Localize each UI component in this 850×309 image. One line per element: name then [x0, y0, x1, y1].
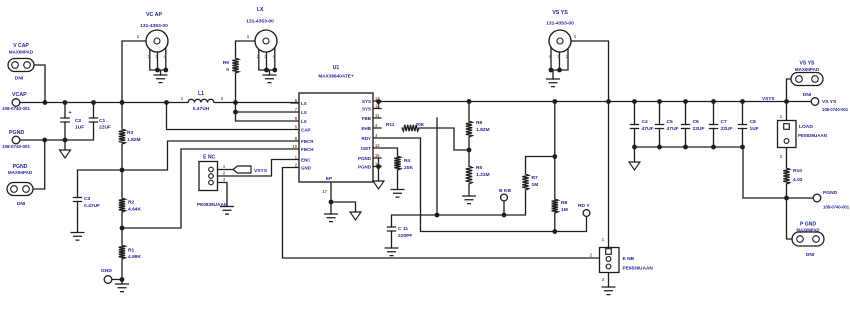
svg-text:PGND: PGND: [358, 164, 372, 169]
svg-text:FBB: FBB: [362, 116, 372, 121]
svg-text:EP: EP: [326, 176, 332, 181]
svg-text:108-0740-001: 108-0740-001: [2, 106, 31, 111]
svg-text:C 11: C 11: [398, 226, 408, 232]
svg-text:LX: LX: [257, 7, 264, 13]
svg-text:0.47UH: 0.47UH: [193, 106, 210, 112]
svg-text:47UF: 47UF: [667, 126, 679, 132]
svg-text:108-0740-001: 108-0740-001: [822, 107, 849, 112]
svg-text:131-4353-00: 131-4353-00: [246, 19, 274, 25]
svg-text:16: 16: [375, 161, 380, 166]
svg-text:+: +: [68, 110, 71, 116]
svg-text:R3: R3: [127, 130, 134, 136]
svg-text:C8: C8: [750, 119, 757, 125]
svg-text:DNI: DNI: [803, 92, 812, 98]
svg-text:FBCH: FBCH: [301, 147, 314, 152]
svg-text:4.99K: 4.99K: [128, 254, 142, 260]
svg-text:20K: 20K: [416, 122, 425, 127]
svg-text:LX: LX: [301, 119, 307, 124]
svg-text:SYS: SYS: [362, 99, 371, 104]
svg-text:0: 0: [226, 67, 229, 73]
svg-text:11: 11: [375, 113, 380, 118]
svg-text:220PF: 220PF: [398, 233, 412, 239]
svg-text:0.47UF: 0.47UF: [84, 203, 100, 209]
svg-text:PE0839UAAN: PE0839UAAN: [197, 202, 228, 207]
svg-text:RD Y: RD Y: [578, 203, 590, 209]
svg-text:1.82M: 1.82M: [476, 127, 490, 133]
svg-text:V CAP: V CAP: [13, 43, 29, 49]
svg-text:R1: R1: [128, 248, 135, 254]
svg-text:DNI: DNI: [806, 252, 815, 258]
svg-text:E NB: E NB: [623, 256, 635, 262]
svg-text:4.02: 4.02: [793, 177, 803, 183]
svg-text:1M: 1M: [532, 182, 539, 188]
svg-text:14: 14: [375, 103, 380, 108]
svg-text:4.64K: 4.64K: [128, 207, 142, 213]
svg-text:PGND: PGND: [358, 156, 372, 161]
svg-text:DNI: DNI: [17, 201, 26, 207]
svg-text:R10: R10: [793, 168, 802, 174]
svg-text:MAXIMPAD: MAXIMPAD: [795, 67, 820, 72]
svg-text:1UF: 1UF: [75, 125, 84, 131]
svg-text:R7: R7: [532, 175, 539, 181]
svg-text:13: 13: [375, 96, 380, 101]
svg-text:ENC: ENC: [301, 157, 311, 162]
svg-text:17: 17: [322, 189, 327, 194]
svg-text:GND: GND: [101, 268, 112, 274]
svg-text:C6: C6: [693, 119, 700, 125]
svg-text:ISET: ISET: [361, 146, 371, 151]
svg-text:108-0740-001: 108-0740-001: [823, 205, 850, 210]
svg-text:C3: C3: [84, 196, 91, 202]
svg-text:PGND: PGND: [9, 130, 24, 136]
svg-text:1M: 1M: [561, 207, 568, 213]
svg-text:22UF: 22UF: [721, 126, 733, 132]
svg-text:E NC: E NC: [203, 155, 215, 161]
svg-text:R9: R9: [223, 60, 230, 66]
svg-text:C4: C4: [642, 119, 649, 125]
svg-text:22UF: 22UF: [693, 126, 705, 132]
svg-text:U1: U1: [333, 65, 340, 71]
svg-text:PGND: PGND: [823, 190, 838, 196]
svg-text:R5: R5: [476, 165, 483, 171]
svg-text:LX: LX: [301, 101, 307, 106]
svg-text:1.21M: 1.21M: [476, 172, 490, 178]
svg-text:VS YS: VS YS: [552, 10, 568, 16]
svg-text:C5: C5: [667, 119, 674, 125]
svg-text:PE0839UAAN: PE0839UAAN: [623, 266, 654, 271]
svg-text:22UF: 22UF: [99, 125, 111, 131]
svg-text:C1: C1: [99, 118, 106, 124]
svg-text:47UF: 47UF: [642, 126, 654, 132]
svg-text:R6: R6: [476, 120, 483, 126]
svg-text:10: 10: [292, 144, 297, 149]
svg-text:MAXIMPAD: MAXIMPAD: [796, 228, 819, 233]
svg-text:VC AP: VC AP: [146, 12, 162, 18]
svg-text:FBCR: FBCR: [301, 139, 314, 144]
svg-text:131-4353-00: 131-4353-00: [546, 21, 574, 27]
svg-text:VSYS: VSYS: [762, 96, 775, 101]
svg-text:LX: LX: [301, 110, 307, 115]
svg-text:LOAD: LOAD: [799, 124, 813, 130]
svg-text:PE0839UAAN: PE0839UAAN: [798, 133, 827, 138]
svg-text:DNI: DNI: [15, 76, 24, 82]
svg-text:VSYS: VSYS: [254, 168, 268, 174]
svg-text:C2: C2: [75, 118, 82, 124]
svg-text:L1: L1: [198, 91, 204, 97]
svg-text:20K: 20K: [404, 165, 413, 171]
svg-text:R2: R2: [128, 200, 135, 206]
svg-text:1.82M: 1.82M: [127, 137, 141, 143]
svg-text:VS YS: VS YS: [822, 99, 837, 105]
svg-text:RDY: RDY: [361, 136, 371, 141]
svg-text:C7: C7: [721, 119, 728, 125]
svg-text:131-4353-00: 131-4353-00: [140, 23, 168, 29]
svg-text:1UF: 1UF: [750, 126, 759, 132]
svg-text:MAXIMPAD: MAXIMPAD: [8, 170, 33, 175]
svg-text:VCAP: VCAP: [12, 92, 27, 98]
svg-text:108-0740-001: 108-0740-001: [2, 144, 31, 149]
svg-text:12: 12: [375, 143, 380, 148]
svg-text:CAP: CAP: [301, 127, 311, 132]
svg-text:EHB: EHB: [361, 126, 371, 131]
svg-text:MAX38640ATE+: MAX38640ATE+: [318, 74, 353, 79]
svg-text:R8: R8: [561, 200, 568, 206]
svg-text:SYS: SYS: [362, 106, 371, 111]
svg-text:VS YS: VS YS: [800, 61, 816, 67]
svg-text:R4: R4: [404, 158, 411, 164]
svg-text:R11: R11: [386, 122, 395, 127]
svg-text:MAXIMPAD: MAXIMPAD: [9, 50, 34, 55]
svg-text:B KB: B KB: [499, 188, 511, 194]
svg-text:15: 15: [375, 153, 380, 158]
svg-text:GND: GND: [301, 165, 312, 170]
